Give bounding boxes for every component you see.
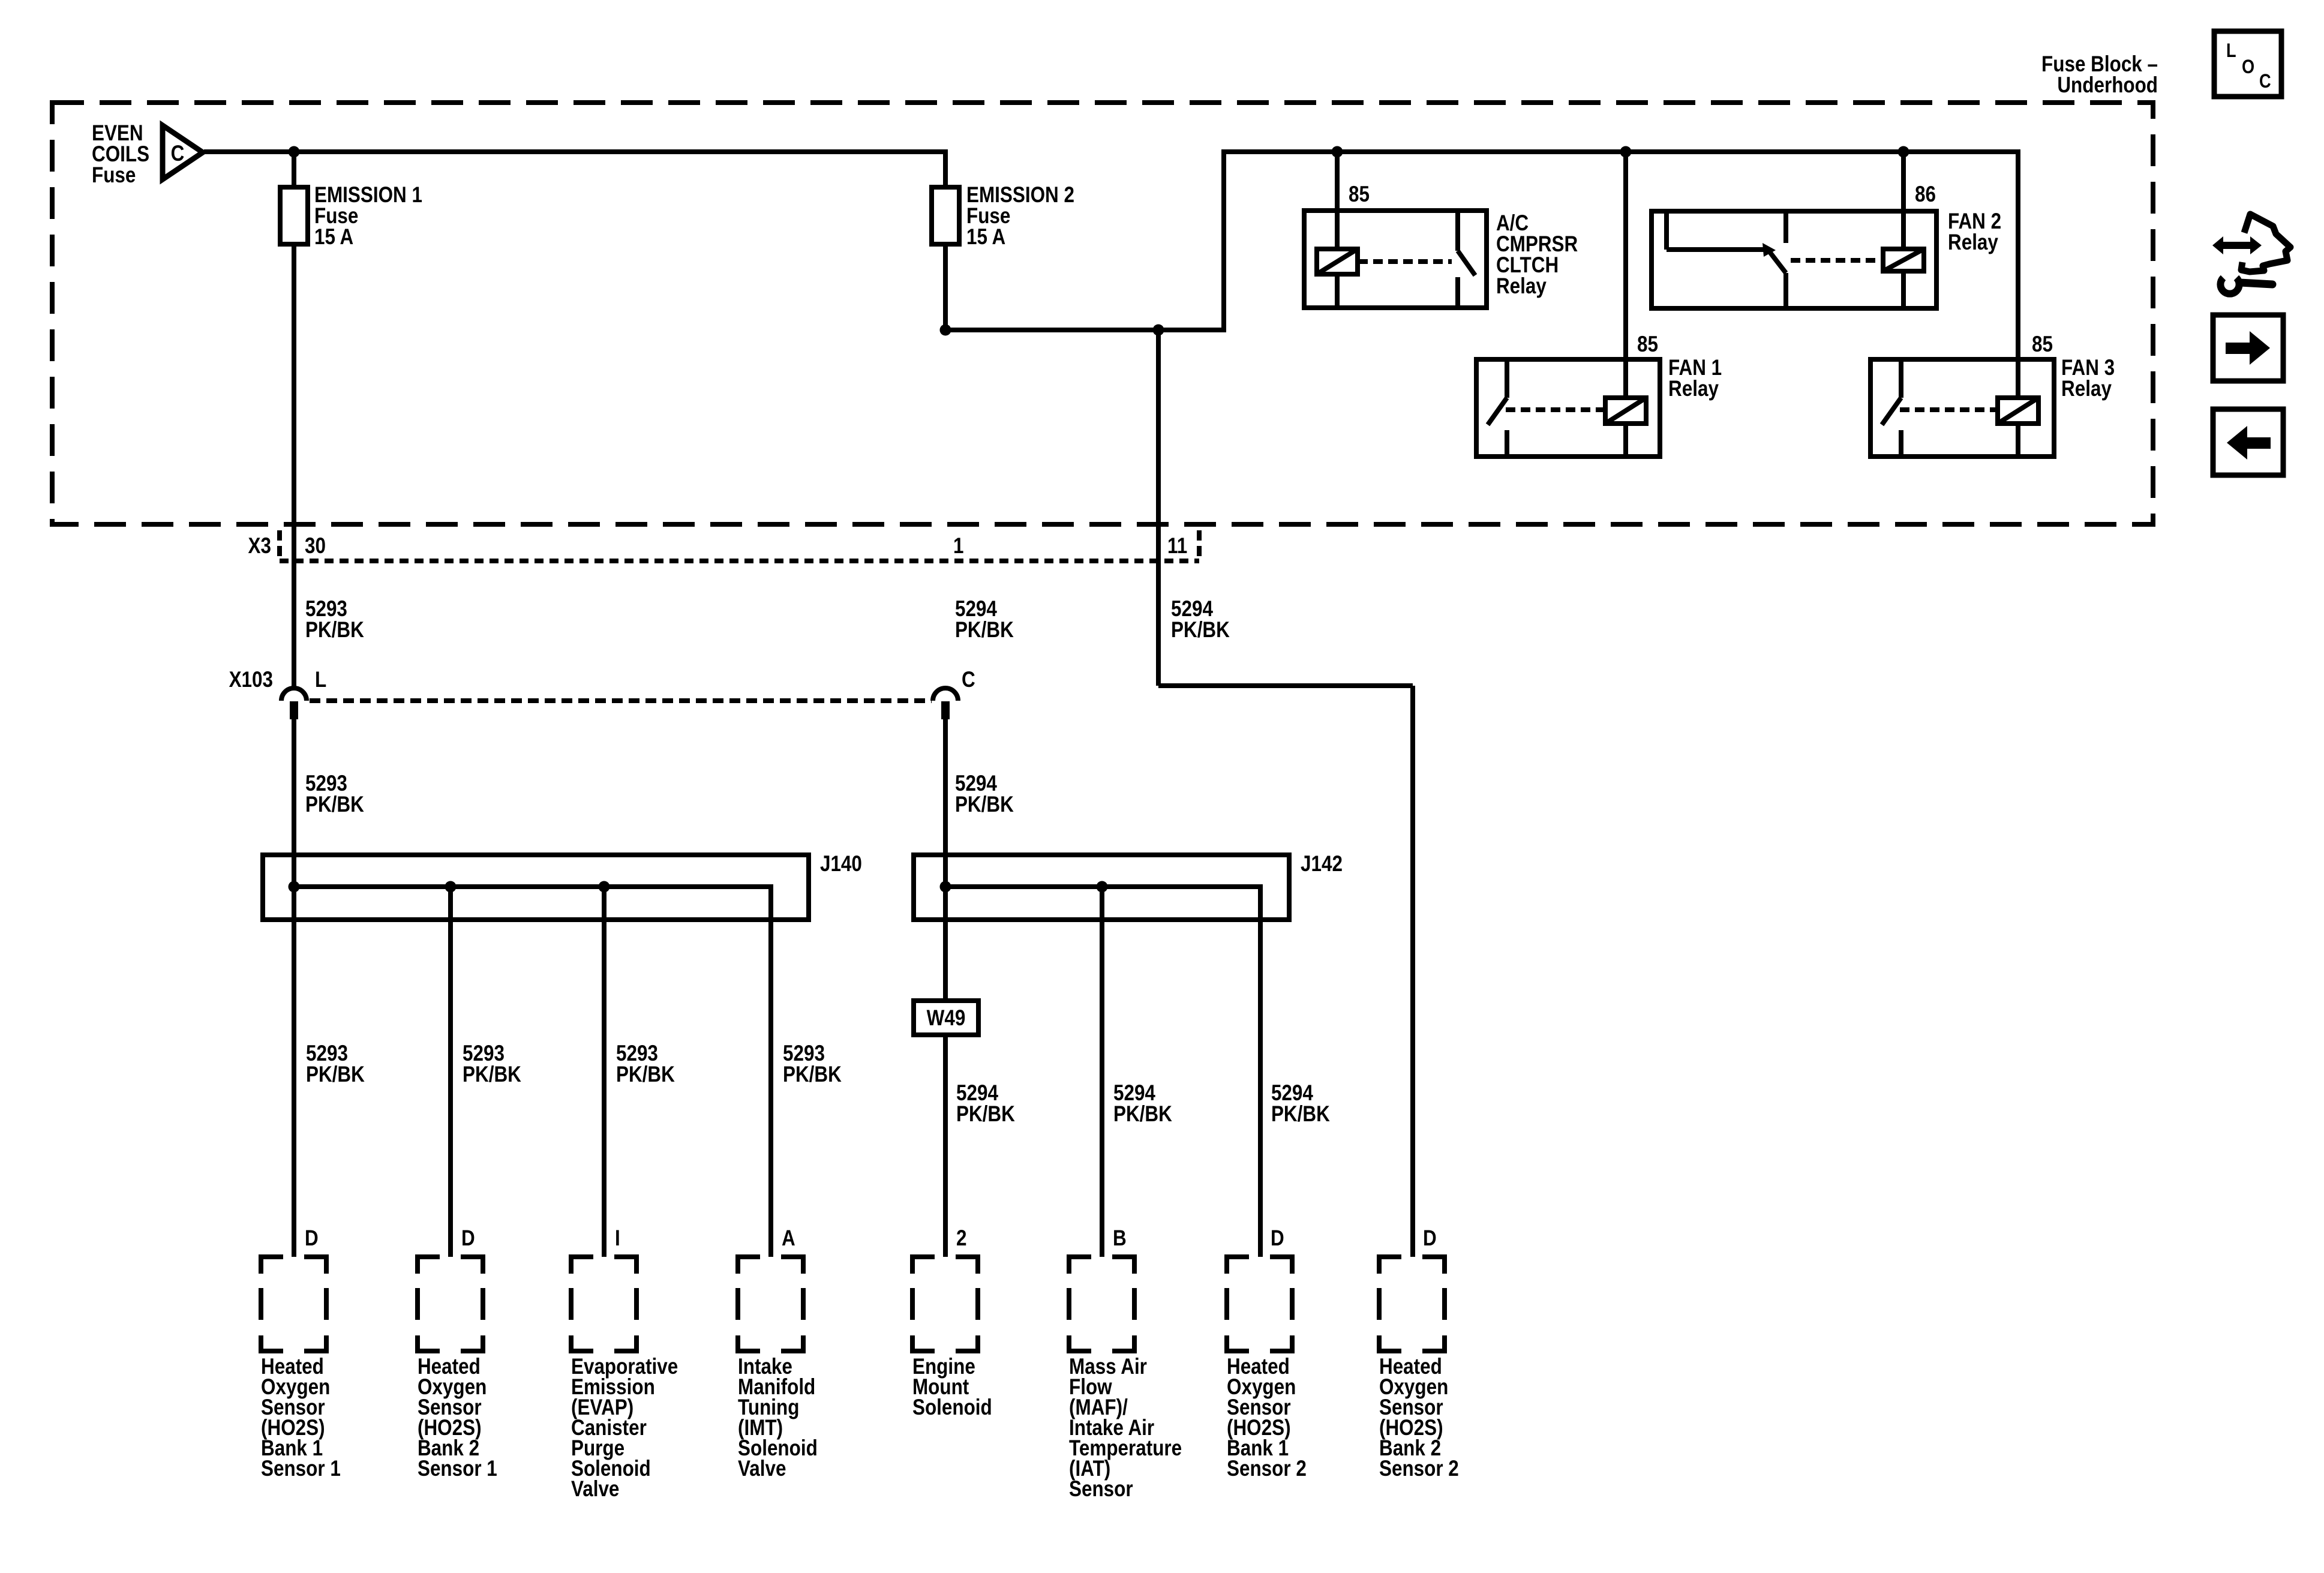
node junction pin 11 tap bbox=[1153, 325, 1164, 336]
icon vehicle diagnosis (head outline, double arrow, wrench) bbox=[2212, 214, 2290, 294]
wire label 5294 PK/BK lower 3 bbox=[1271, 1081, 1330, 1127]
wire C to J142 bbox=[943, 719, 948, 1001]
node junction FAN 2 relay tap bbox=[1898, 146, 1909, 158]
connector X103 dotted line bbox=[310, 698, 932, 703]
off-page connector C EVEN COILS Fuse bbox=[163, 125, 203, 179]
pin 85 label FAN 1 relay bbox=[1637, 332, 1658, 357]
svg-text:2: 2 bbox=[956, 1226, 966, 1251]
connector Heated Oxygen Sensor (HO2S) Bank 1 Sensor 1 dashed box bbox=[259, 1257, 329, 1351]
wire pin 11 drop bbox=[1156, 330, 1161, 686]
svg-text:11: 11 bbox=[1167, 534, 1187, 559]
svg-text:Relay: Relay bbox=[1496, 274, 1547, 299]
wire label 5294 PK/BK upper pin11 bbox=[1171, 597, 1230, 643]
label X3 bbox=[248, 534, 271, 559]
wire label 5293 PK/BK lower 4 bbox=[783, 1041, 842, 1087]
svg-text:Sensor: Sensor bbox=[1069, 1477, 1133, 1502]
label Fuse Block - Underhood bbox=[2041, 52, 2158, 98]
svg-text:J142: J142 bbox=[1301, 852, 1343, 876]
icon back arrow box bbox=[2213, 409, 2283, 475]
pin 11 label bbox=[1167, 534, 1187, 559]
svg-text:PK/BK: PK/BK bbox=[955, 618, 1014, 643]
pin D label for Heated Oxygen Sensor (HO2S) Bank 1 Sensor 1 bbox=[305, 1226, 319, 1251]
connector Engine Mount Solenoid dashed box bbox=[910, 1257, 980, 1351]
pin C label bbox=[962, 668, 975, 692]
wire J142 to HO2S B1S2 bbox=[1258, 884, 1263, 1257]
connector Intake Manifold Tuning (IMT) Solenoid Valve dashed box bbox=[735, 1257, 806, 1351]
label A/C CMPRSR CLTCH Relay bbox=[1496, 211, 1578, 299]
svg-text:PK/BK: PK/BK bbox=[1171, 618, 1230, 643]
connector X3 left tick bbox=[277, 530, 282, 560]
pin 1 label bbox=[953, 534, 963, 559]
wire pin 85 into FAN 1 relay bbox=[1623, 152, 1628, 399]
label FAN 1 Relay bbox=[1668, 356, 1722, 401]
wire right branch down to HO2S B2S2 bbox=[1410, 686, 1415, 1257]
svg-text:85: 85 bbox=[2032, 332, 2053, 357]
wire pin 85 into A/C relay coil bbox=[1335, 152, 1340, 250]
svg-text:Valve: Valve bbox=[571, 1477, 619, 1502]
svg-text:L: L bbox=[2226, 40, 2236, 62]
pin A label for Intake Manifold Tuning (IMT) Solenoid Valve bbox=[782, 1226, 795, 1251]
label Mass Air Flow (MAF)/ Intake Air Temperature (IAT) Sensor bbox=[1069, 1355, 1182, 1502]
wire label 5293 PK/BK lower 3 bbox=[616, 1041, 675, 1087]
wire J140 to IMT bbox=[768, 884, 773, 1257]
svg-text:85: 85 bbox=[1349, 182, 1370, 207]
connector Heated Oxygen Sensor (HO2S) Bank 2 Sensor 2 dashed box bbox=[1377, 1257, 1447, 1351]
label Heated Oxygen Sensor (HO2S) Bank 1 Sensor 2 bbox=[1227, 1355, 1307, 1481]
svg-text:85: 85 bbox=[1637, 332, 1658, 357]
wire EMISSION 2 fuse to junction bbox=[943, 243, 948, 332]
svg-text:PK/BK: PK/BK bbox=[305, 618, 364, 643]
pin 30 label bbox=[305, 534, 326, 559]
pin 2 label for Engine Mount Solenoid bbox=[956, 1226, 966, 1251]
label J140 bbox=[820, 852, 862, 876]
pin I label for Evaporative Emission (EVAP) Canister Purge Solenoid Valve bbox=[615, 1226, 620, 1251]
fuse EMISSION 2 bbox=[932, 187, 959, 244]
wire pin 11 horizontal to right bbox=[1158, 683, 1413, 688]
node J140 pin dot 1 bbox=[289, 881, 300, 893]
label FAN 2 Relay bbox=[1948, 209, 2001, 255]
connector X103 terminal L arc bbox=[281, 688, 307, 719]
label FAN 3 Relay bbox=[2061, 356, 2115, 401]
label X103 bbox=[229, 668, 273, 692]
node junction A/C relay tap bbox=[1332, 146, 1343, 158]
pin D label for Heated Oxygen Sensor (HO2S) Bank 1 Sensor 2 bbox=[1271, 1226, 1284, 1251]
wire FAN 3 coil to box bottom bbox=[2016, 424, 2020, 457]
dashed actuator link FAN 3 relay bbox=[1900, 407, 1998, 412]
svg-text:15 A: 15 A bbox=[966, 225, 1005, 250]
relay K3 FAN 2 box bbox=[1652, 211, 1936, 308]
wire J140 to HO2S B2S1 bbox=[448, 887, 453, 1257]
node J142 pin dot 1 bbox=[940, 881, 951, 893]
connector X103 terminal C arc bbox=[933, 688, 958, 719]
wire top relay bus bbox=[1221, 149, 2018, 154]
pin 86 label FAN 2 relay bbox=[1915, 182, 1936, 207]
wire label 5294 PK/BK mid bbox=[955, 772, 1014, 817]
dashed actuator link FAN 1 relay bbox=[1506, 407, 1605, 412]
svg-text:Sensor 1: Sensor 1 bbox=[261, 1457, 341, 1481]
J140 internal bus bbox=[294, 884, 771, 889]
label Evaporative Emission (EVAP) Canister Purge Solenoid Valve bbox=[571, 1355, 678, 1502]
pin D label for Heated Oxygen Sensor (HO2S) Bank 2 Sensor 1 bbox=[461, 1226, 475, 1251]
svg-text:PK/BK: PK/BK bbox=[463, 1062, 521, 1087]
svg-text:W49: W49 bbox=[927, 1006, 966, 1031]
node J140 pin dot 2 bbox=[445, 881, 457, 893]
wire FAN 2 coil to box bottom bbox=[1901, 271, 1906, 308]
connector X3 right tick bbox=[1197, 530, 1202, 560]
svg-text:PK/BK: PK/BK bbox=[1113, 1102, 1172, 1127]
relay K1 A/C CMPRSR CLTCH box bbox=[1304, 211, 1487, 308]
pin 85 label A/C relay bbox=[1349, 182, 1370, 207]
svg-text:Sensor 1: Sensor 1 bbox=[418, 1457, 497, 1481]
svg-text:D: D bbox=[461, 1226, 475, 1251]
node junction FAN 1 relay tap bbox=[1620, 146, 1632, 158]
wire pin 85 into FAN 3 relay bbox=[2016, 149, 2020, 399]
svg-text:D: D bbox=[305, 1226, 319, 1251]
connector Heated Oxygen Sensor (HO2S) Bank 1 Sensor 2 dashed box bbox=[1224, 1257, 1295, 1351]
svg-text:15 A: 15 A bbox=[314, 225, 353, 250]
pin 85 label FAN 3 relay bbox=[2032, 332, 2053, 357]
label EMISSION 1 Fuse 15 A bbox=[314, 183, 422, 250]
svg-text:PK/BK: PK/BK bbox=[956, 1102, 1015, 1127]
connector Heated Oxygen Sensor (HO2S) Bank 2 Sensor 1 dashed box bbox=[415, 1257, 485, 1351]
svg-text:PK/BK: PK/BK bbox=[305, 792, 364, 817]
svg-text:Relay: Relay bbox=[1668, 377, 1719, 401]
svg-text:Valve: Valve bbox=[738, 1457, 786, 1481]
fuse EMISSION 1 bbox=[280, 187, 308, 244]
switch contact FAN 1 relay bbox=[1488, 359, 1507, 457]
label EVEN COILS Fuse bbox=[92, 121, 149, 188]
wire label 5293 PK/BK lower 2 bbox=[463, 1041, 521, 1087]
J142 internal bus bbox=[945, 884, 1260, 889]
svg-text:A: A bbox=[782, 1226, 795, 1251]
svg-text:PK/BK: PK/BK bbox=[616, 1062, 675, 1087]
svg-text:L: L bbox=[315, 668, 326, 692]
node J140 pin dot 3 bbox=[599, 881, 610, 893]
node junction EMISSION 1 tap bbox=[289, 146, 300, 158]
svg-text:Relay: Relay bbox=[1948, 230, 1998, 255]
icon forward arrow box bbox=[2213, 315, 2283, 381]
label J142 bbox=[1301, 852, 1343, 876]
label EMISSION 2 Fuse 15 A bbox=[966, 183, 1074, 250]
label Engine Mount Solenoid bbox=[912, 1355, 992, 1420]
connector Mass Air Flow (MAF)/ Intake Air Temperature (IAT) Sensor dashed box bbox=[1067, 1257, 1137, 1351]
wire J140 to EVAP bbox=[602, 887, 606, 1257]
svg-text:30: 30 bbox=[305, 534, 326, 559]
wire EMISSION 1 drop to fuse bbox=[292, 149, 296, 188]
wire label 5293 PK/BK upper bbox=[305, 597, 364, 643]
svg-text:Sensor 2: Sensor 2 bbox=[1379, 1457, 1459, 1481]
switch contact A/C relay bbox=[1458, 211, 1475, 308]
svg-text:Solenoid: Solenoid bbox=[912, 1395, 992, 1420]
fuse block - underhood dashed border bbox=[52, 103, 2153, 524]
wire A/C coil to box bottom bbox=[1335, 274, 1340, 308]
svg-text:O: O bbox=[2242, 56, 2254, 78]
connector Evaporative Emission (EVAP) Canister Purge Solenoid Valve dashed box bbox=[569, 1257, 639, 1351]
svg-text:1: 1 bbox=[953, 534, 963, 559]
wire W49 to Engine Mount Solenoid bbox=[943, 1035, 948, 1257]
wire riser to relay bus bbox=[1221, 152, 1226, 332]
node junction at EMISSION 2 / feed split bbox=[940, 325, 951, 336]
label Heated Oxygen Sensor (HO2S) Bank 2 Sensor 1 bbox=[418, 1355, 497, 1481]
relay K2 FAN 1 box bbox=[1476, 359, 1660, 457]
svg-text:D: D bbox=[1271, 1226, 1284, 1251]
wire label 5294 PK/BK lower 1 bbox=[956, 1081, 1015, 1127]
node J142 pin dot 2 bbox=[1097, 881, 1108, 893]
coil of A/C relay bbox=[1317, 249, 1358, 274]
svg-text:C: C bbox=[171, 142, 185, 166]
switch contact FAN 2 relay bbox=[1667, 209, 1786, 308]
wire label 5294 PK/BK lower 2 bbox=[1113, 1081, 1172, 1127]
wire horizontal feed to relays bbox=[945, 328, 1224, 332]
label Intake Manifold Tuning (IMT) Solenoid Valve bbox=[738, 1355, 818, 1481]
pin B label for Mass Air Flow (MAF)/ Intake Air Temperature (IAT) Sensor bbox=[1113, 1226, 1127, 1251]
svg-text:D: D bbox=[1423, 1226, 1437, 1251]
svg-text:B: B bbox=[1113, 1226, 1127, 1251]
svg-text:PK/BK: PK/BK bbox=[306, 1062, 365, 1087]
wire J142 to MAF/IAT bbox=[1100, 887, 1104, 1257]
pin L label bbox=[315, 668, 326, 692]
label Heated Oxygen Sensor (HO2S) Bank 1 Sensor 1 bbox=[261, 1355, 341, 1481]
coil of FAN 2 relay bbox=[1883, 249, 1924, 271]
connector X3 dotted line bbox=[280, 559, 1199, 563]
svg-text:Underhood: Underhood bbox=[2057, 73, 2158, 98]
dashed actuator link FAN 2 relay bbox=[1791, 258, 1883, 263]
label Heated Oxygen Sensor (HO2S) Bank 2 Sensor 2 bbox=[1379, 1355, 1459, 1481]
coil of FAN 1 relay bbox=[1605, 398, 1646, 424]
wire L to J140 bbox=[292, 719, 296, 1257]
wire EMISSION 2 drop to fuse bbox=[943, 149, 948, 188]
svg-text:C: C bbox=[962, 668, 975, 692]
wire EMISSION 1 fuse to X103 bbox=[292, 243, 296, 689]
icon LOC box bbox=[2214, 31, 2281, 97]
svg-text:X3: X3 bbox=[248, 534, 271, 559]
relay K4 FAN 3 box bbox=[1870, 359, 2054, 457]
svg-text:PK/BK: PK/BK bbox=[783, 1062, 842, 1087]
pin D label for Heated Oxygen Sensor (HO2S) Bank 2 Sensor 2 bbox=[1423, 1226, 1437, 1251]
svg-text:Fuse: Fuse bbox=[92, 163, 136, 188]
svg-text:J140: J140 bbox=[820, 852, 862, 876]
wire FAN 1 coil to box bottom bbox=[1623, 424, 1628, 457]
wire pin 86 into FAN 2 relay coil bbox=[1901, 152, 1906, 250]
svg-text:PK/BK: PK/BK bbox=[955, 792, 1014, 817]
wire label 5294 PK/BK upper pin1 bbox=[955, 597, 1014, 643]
svg-text:PK/BK: PK/BK bbox=[1271, 1102, 1330, 1127]
svg-text:X103: X103 bbox=[229, 668, 273, 692]
dashed actuator link A/C relay bbox=[1358, 259, 1452, 264]
wire top bus from triangle to EMISSION 2 bbox=[204, 149, 945, 154]
svg-text:86: 86 bbox=[1915, 182, 1936, 207]
svg-text:I: I bbox=[615, 1226, 620, 1251]
coil of FAN 3 relay bbox=[1998, 398, 2038, 424]
splice pack J140 box bbox=[263, 855, 809, 920]
svg-text:Relay: Relay bbox=[2061, 377, 2112, 401]
wire label 5293 PK/BK mid bbox=[305, 772, 364, 817]
switch contact FAN 3 relay bbox=[1882, 359, 1901, 457]
splice pack J142 box bbox=[914, 855, 1289, 920]
splice W49 box bbox=[914, 1001, 978, 1035]
svg-text:C: C bbox=[2259, 71, 2271, 92]
svg-text:Sensor 2: Sensor 2 bbox=[1227, 1457, 1307, 1481]
wire label 5293 PK/BK lower 1 bbox=[306, 1041, 365, 1087]
